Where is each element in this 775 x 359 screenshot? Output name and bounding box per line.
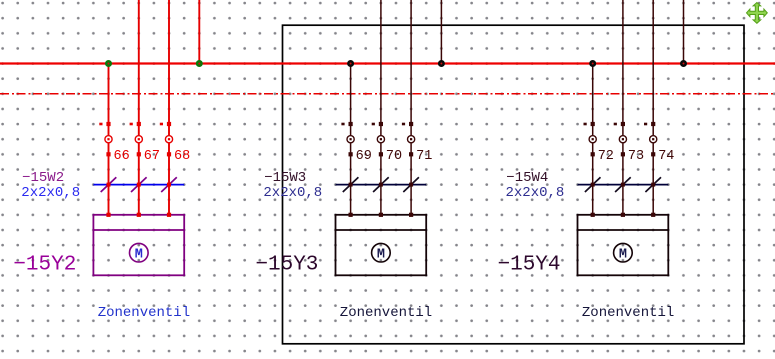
plug contact pin 67 (dash, squares, contact circle) (130, 122, 143, 156)
plug contact pin 71 (dash, squares, contact circle) (402, 122, 415, 156)
solenoid valve −15Y3 (box with M motor circle) (336, 213, 427, 276)
svg-text:−15W3: −15W3 (264, 170, 306, 186)
cable conductor slash on pin 66 wire (101, 177, 117, 192)
junction dot on net L at wire Y4-C (680, 60, 687, 67)
plug contact pin 69 (dash, squares, contact circle) (341, 122, 354, 156)
plug contact pin 72 (dash, squares, contact circle) (584, 122, 597, 156)
junction dot on net L at wire Y4-A (589, 60, 596, 67)
cable line −15W2 (93, 184, 184, 186)
plug contact pin 66 (dash, squares, contact circle) (99, 122, 112, 156)
wire Y3 left drop from net L to valve (350, 64, 352, 215)
svg-text:Zonenventil: Zonenventil (340, 305, 432, 321)
solenoid valve −15Y2 (box with M motor circle) (93, 213, 184, 276)
cable conductor slash on pin 74 wire (645, 177, 661, 192)
cable line −15W4 (578, 184, 669, 186)
plug contact pin 74 (dash, squares, contact circle) (644, 122, 657, 156)
svg-text:M: M (135, 247, 143, 262)
svg-text:−15Y2: −15Y2 (13, 254, 76, 277)
wire Y4 phase A (top feed, continues to valve) (622, 0, 624, 215)
svg-text:2x2x0,8: 2x2x0,8 (263, 185, 322, 201)
cable conductor slash on pin 68 wire (161, 177, 177, 192)
wire Y2 right drop from top to net L (198, 0, 200, 64)
boundary dash-dot line (0, 93, 775, 95)
wire Y4 phase B (top feed, continues to valve) (652, 0, 654, 215)
junction dot on net L at wire Y3-C (438, 60, 445, 67)
svg-text:−15Y4: −15Y4 (498, 254, 561, 277)
junction dot on net L at wire Y2-A (105, 60, 112, 67)
svg-text:72: 72 (598, 149, 614, 164)
wire Y2 left drop from net L to valve (108, 64, 110, 215)
svg-text:2x2x0,8: 2x2x0,8 (21, 185, 80, 201)
solenoid valve −15Y4 (box with M motor circle) (578, 213, 669, 276)
plug contact pin 68 (dash, squares, contact circle) (160, 122, 173, 156)
svg-text:Zonenventil: Zonenventil (98, 305, 190, 321)
svg-text:−15W2: −15W2 (22, 170, 64, 186)
wire Y4 left drop from net L to valve (592, 64, 594, 215)
svg-text:66: 66 (114, 149, 130, 164)
cable conductor slash on pin 69 wire (343, 177, 359, 192)
junction dot on net L at wire Y2-C (196, 60, 203, 67)
svg-text:73: 73 (628, 149, 644, 164)
structure box (zone frame) (283, 25, 745, 344)
svg-text:74: 74 (658, 149, 674, 164)
junction dot on net L at wire Y3-A (347, 60, 354, 67)
svg-text:70: 70 (386, 149, 402, 164)
svg-text:−15W4: −15W4 (506, 170, 548, 186)
wire Y3 right drop from top to net L (440, 0, 442, 64)
cable conductor slash on pin 67 wire (131, 177, 147, 192)
cable conductor slash on pin 73 wire (615, 177, 631, 192)
wire Y4 right drop from top to net L (683, 0, 685, 64)
plug contact pin 73 (dash, squares, contact circle) (614, 122, 627, 156)
cable conductor slash on pin 70 wire (373, 177, 389, 192)
cable conductor slash on pin 72 wire (585, 177, 601, 192)
wire Y3 phase A (top feed, continues to valve) (380, 0, 382, 215)
plug contact pin 70 (dash, squares, contact circle) (372, 122, 385, 156)
svg-text:2x2x0,8: 2x2x0,8 (506, 185, 565, 201)
svg-text:M: M (377, 247, 385, 262)
cable conductor slash on pin 71 wire (403, 177, 419, 192)
cable line −15W3 (336, 184, 427, 186)
svg-text:69: 69 (356, 149, 372, 164)
move cursor icon (green 4-way arrows) (747, 3, 768, 24)
svg-text:68: 68 (174, 149, 190, 164)
wire Y3 phase B (top feed, continues to valve) (410, 0, 412, 215)
svg-text:71: 71 (416, 149, 432, 164)
svg-text:Zonenventil: Zonenventil (582, 305, 674, 321)
net L (red horizontal power line) (0, 62, 775, 64)
wire Y2 phase A (top feed, continues to valve) (138, 0, 140, 215)
wire Y2 phase B (top feed, continues to valve) (168, 0, 170, 215)
svg-text:−15Y3: −15Y3 (255, 254, 318, 277)
svg-text:67: 67 (144, 149, 160, 164)
svg-text:M: M (619, 247, 627, 262)
